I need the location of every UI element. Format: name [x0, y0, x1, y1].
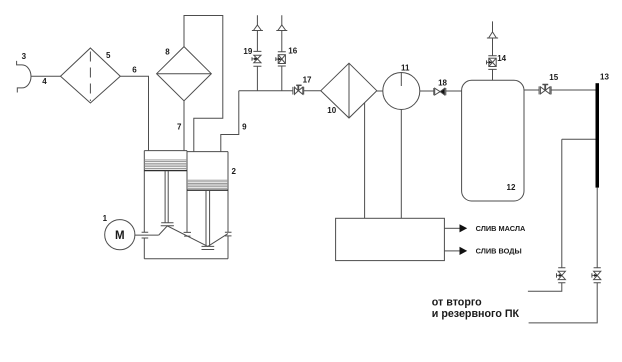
motor shaft [135, 234, 159, 236]
separator 11 inner stub [400, 73, 402, 87]
vent triangle 19 [252, 25, 263, 31]
arrow oil drain [460, 224, 468, 232]
svg-text:11: 11 [401, 64, 410, 73]
connecting rod 2 [202, 190, 215, 249]
valve 17 body [295, 87, 303, 94]
piston 1 crown [144, 170, 187, 172]
valve 19 stem [252, 57, 257, 61]
svg-text:17: 17 [303, 76, 312, 85]
svg-text:5: 5 [106, 51, 111, 60]
valve 14 stem tip [489, 61, 492, 64]
crankshaft [159, 226, 228, 247]
svg-text:18: 18 [438, 78, 447, 87]
piston 2 rings [187, 180, 228, 188]
valve 16 stem [276, 57, 278, 61]
svg-text:СЛИВ МАСЛА: СЛИВ МАСЛА [476, 224, 526, 233]
separator 11 circle [383, 73, 420, 110]
wire tank top to valve 14 [492, 69, 494, 80]
valve 15 stem [544, 85, 546, 90]
valve 17 ticks [293, 87, 304, 95]
valve 14 X [489, 58, 496, 66]
filter 5 element dashed [89, 52, 91, 102]
check valve 18 ticks [434, 88, 446, 95]
wire tank 12 to valve 15 [524, 89, 539, 91]
wire branch valve 16 [281, 66, 283, 91]
valve 15 ticks [539, 86, 551, 94]
svg-text:19: 19 [243, 47, 252, 56]
wire valve A outlet [528, 283, 562, 292]
valve 14 ticks [488, 56, 496, 70]
manifold bar 13 [596, 83, 600, 187]
intake bell 3 [17, 61, 31, 93]
wire manifold bottom to valve B [596, 188, 598, 268]
receiver tank 12 [462, 80, 524, 201]
bottom valve B ticks [594, 268, 601, 283]
check valve 18 filled triangle [440, 88, 445, 95]
valve 17 stem [297, 85, 299, 90]
drain wire from separator 11 [400, 110, 402, 219]
arrow water drain [460, 247, 468, 255]
connecting rod 1 [161, 171, 174, 226]
wire 7 filter 8 to cylinder 1 [183, 101, 185, 151]
valve 16 stem tip [278, 58, 281, 61]
filter F2 (8) diamond [157, 47, 212, 101]
svg-text:12: 12 [507, 183, 516, 192]
wire branch valve 19 [256, 66, 258, 90]
wire water drain [444, 250, 459, 252]
wire valve 15 to manifold 13 [551, 89, 595, 91]
wire separator 11 to check valve 18 [420, 90, 434, 92]
middle wall [184, 151, 191, 237]
wire filter 10 to separator 11 [377, 90, 383, 92]
valve 14 body box [489, 58, 496, 66]
valve 16 body box [278, 55, 285, 64]
wire vent 16 [281, 15, 283, 52]
piston 1 rings [144, 160, 187, 169]
drain collector box [336, 218, 445, 260]
valve 16 X [278, 55, 285, 64]
bottom valve A ticks [558, 268, 565, 283]
wire valve17 to filter 10 [304, 90, 321, 92]
wire oil drain [444, 227, 459, 229]
cylinder 1 left wall [142, 151, 149, 259]
valve 15 body [540, 87, 550, 94]
svg-text:1: 1 [103, 214, 108, 223]
svg-text:7: 7 [177, 123, 182, 132]
wire valve 18 to tank 12 [446, 90, 462, 92]
wire 4 intake to filter 5 [31, 75, 61, 77]
bottom valve B stem [592, 273, 597, 277]
wire loop filter 8 top to cylinder 2 [184, 16, 223, 152]
svg-text:M: M [115, 230, 125, 242]
bottom valve A hourglass [558, 271, 565, 279]
piston 2 crown [187, 189, 228, 191]
svg-text:9: 9 [242, 122, 247, 131]
drain wire from filter 10 [364, 103, 366, 218]
svg-text:14: 14 [497, 54, 506, 63]
filter 8 element line [157, 73, 212, 75]
filter 10 element line [348, 63, 350, 118]
svg-text:от вторго: от вторго [432, 297, 482, 309]
wire manifold branch to valve A [562, 139, 596, 268]
cylinder 2 right wall [225, 152, 232, 259]
valve 19 stem tip [254, 57, 257, 60]
svg-text:10: 10 [327, 106, 336, 115]
wire vent 19 [256, 15, 258, 51]
svg-text:16: 16 [288, 47, 297, 56]
wire 6 filter to cylinder 1 inlet [120, 76, 148, 150]
cylinder 2 top [187, 151, 228, 153]
svg-text:СЛИВ ВОДЫ: СЛИВ ВОДЫ [476, 246, 522, 255]
vent triangle 16 [276, 25, 287, 31]
bottom valve B hourglass [594, 271, 601, 279]
svg-text:4: 4 [42, 77, 47, 86]
bottom valve B stem tip [594, 274, 597, 277]
bottom valve A stem tip [559, 274, 562, 277]
valve 14 stem [487, 60, 489, 64]
svg-text:8: 8 [165, 48, 170, 57]
wire 9 main pipe to cylinder 2 [221, 91, 239, 152]
svg-text:13: 13 [600, 73, 609, 82]
filter 10 diamond [321, 63, 377, 118]
valve 19 ticks [253, 51, 261, 66]
motor 1 circle [105, 220, 135, 250]
check valve 18 open triangle [435, 88, 440, 95]
bottom valve A stem [557, 273, 562, 277]
valve 16 ticks [278, 52, 286, 66]
svg-text:2: 2 [232, 167, 237, 176]
wire valve B outlet [529, 283, 598, 323]
svg-text:3: 3 [22, 52, 27, 61]
valve 19 body hourglass [254, 55, 261, 63]
svg-text:15: 15 [549, 73, 558, 82]
wire main pipe west [239, 90, 293, 92]
svg-text:и резервного ПК: и резервного ПК [432, 308, 520, 320]
svg-text:6: 6 [132, 65, 137, 74]
wire vent 14 [492, 21, 494, 55]
vent triangle 14 [487, 32, 498, 38]
crankcase bottom [144, 258, 228, 260]
filter F1 (5) diamond [61, 48, 121, 103]
cylinder block 1 top [144, 150, 187, 152]
